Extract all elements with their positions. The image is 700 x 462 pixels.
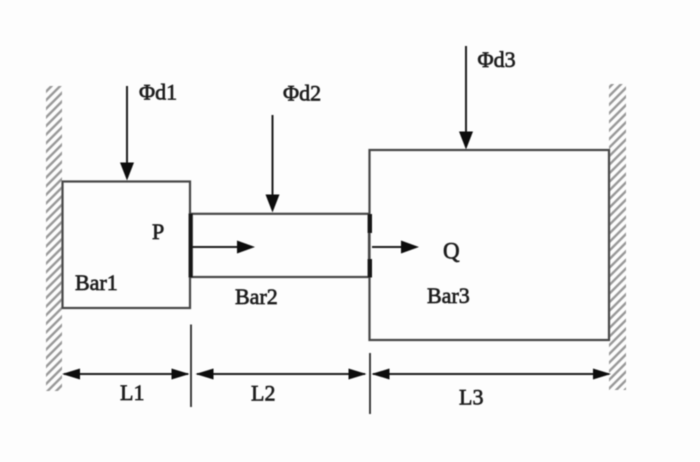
arrow d3 xyxy=(465,46,467,133)
thick joint Bar2/Bar3 upper xyxy=(368,214,372,233)
dimension tick L2/L3 xyxy=(369,353,371,414)
right wall hatching xyxy=(609,84,626,390)
left wall hatching xyxy=(46,86,62,391)
svg-text:L1: L1 xyxy=(120,380,144,405)
Bar2 outline xyxy=(190,214,369,277)
dimension tick L1/L2 xyxy=(190,325,192,408)
thick joint Bar1/Bar2 xyxy=(189,214,193,278)
Bar1 outline xyxy=(63,182,191,309)
arrow d1 xyxy=(126,86,128,164)
arrow P xyxy=(192,246,240,248)
arrow d2 xyxy=(272,115,274,196)
dimension line L3 xyxy=(373,373,609,375)
dimension line L1 xyxy=(64,373,188,375)
svg-text:L2: L2 xyxy=(251,381,275,406)
svg-text:Φd2: Φd2 xyxy=(283,81,321,106)
dimension line L2 xyxy=(197,373,365,375)
svg-text:L3: L3 xyxy=(459,385,483,410)
svg-text:Q: Q xyxy=(443,239,460,264)
arrow Q xyxy=(372,246,404,248)
Bar3 outline xyxy=(370,150,610,340)
svg-text:P: P xyxy=(152,219,164,244)
svg-text:Bar3: Bar3 xyxy=(427,283,470,308)
svg-text:Φd1: Φd1 xyxy=(139,80,177,105)
thick joint Bar2/Bar3 lower xyxy=(368,259,372,278)
svg-text:Bar1: Bar1 xyxy=(75,270,118,295)
svg-text:Bar2: Bar2 xyxy=(235,284,278,309)
svg-text:Φd3: Φd3 xyxy=(478,47,516,72)
